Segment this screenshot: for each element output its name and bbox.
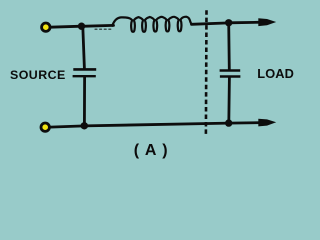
junction node C (bottom right): [225, 119, 232, 126]
arrowhead: top output to load: [258, 18, 276, 26]
wire (scan artifact dots under top wire): [95, 28, 113, 30]
capacitor C2 top plate: [220, 69, 241, 72]
junction node D (bottom left): [81, 122, 88, 129]
inductor L1: [112, 17, 192, 32]
svg-text:LOAD: LOAD: [257, 66, 294, 81]
source terminal (top, yellow binding post): [42, 23, 50, 31]
source terminal (bottom, yellow binding post): [41, 123, 49, 131]
capacitor C2 bottom plate: [220, 75, 241, 77]
wire: inductor L1 right lead to node B: [192, 23, 230, 24]
junction node B (top right): [225, 19, 232, 26]
capacitor C1 top lead: [83, 27, 85, 69]
wire: node A to inductor L1 left lead: [82, 24, 114, 28]
wire: node B to load (top output lead): [229, 21, 263, 24]
wire: node D to node C (bottom rail): [84, 123, 229, 126]
arrowhead: bottom output to load: [258, 119, 276, 127]
capacitor C1 top plate: [73, 68, 96, 71]
dashed boundary line between filter and load: [205, 10, 208, 134]
svg-text:SOURCE: SOURCE: [10, 68, 66, 82]
capacitor C1 bottom plate: [73, 75, 96, 77]
capacitor C2 top lead: [227, 23, 230, 70]
capacitor C1 bottom lead: [83, 77, 86, 125]
wire: top-left, source terminal to node A: [50, 26, 82, 27]
wire: node C to load (bottom output lead): [229, 121, 263, 124]
svg-text:( A ): ( A ): [134, 142, 169, 159]
wire: bottom-left, source terminal to node D: [50, 126, 85, 127]
capacitor C2 bottom lead: [227, 77, 230, 123]
junction node A (top left): [78, 23, 85, 30]
